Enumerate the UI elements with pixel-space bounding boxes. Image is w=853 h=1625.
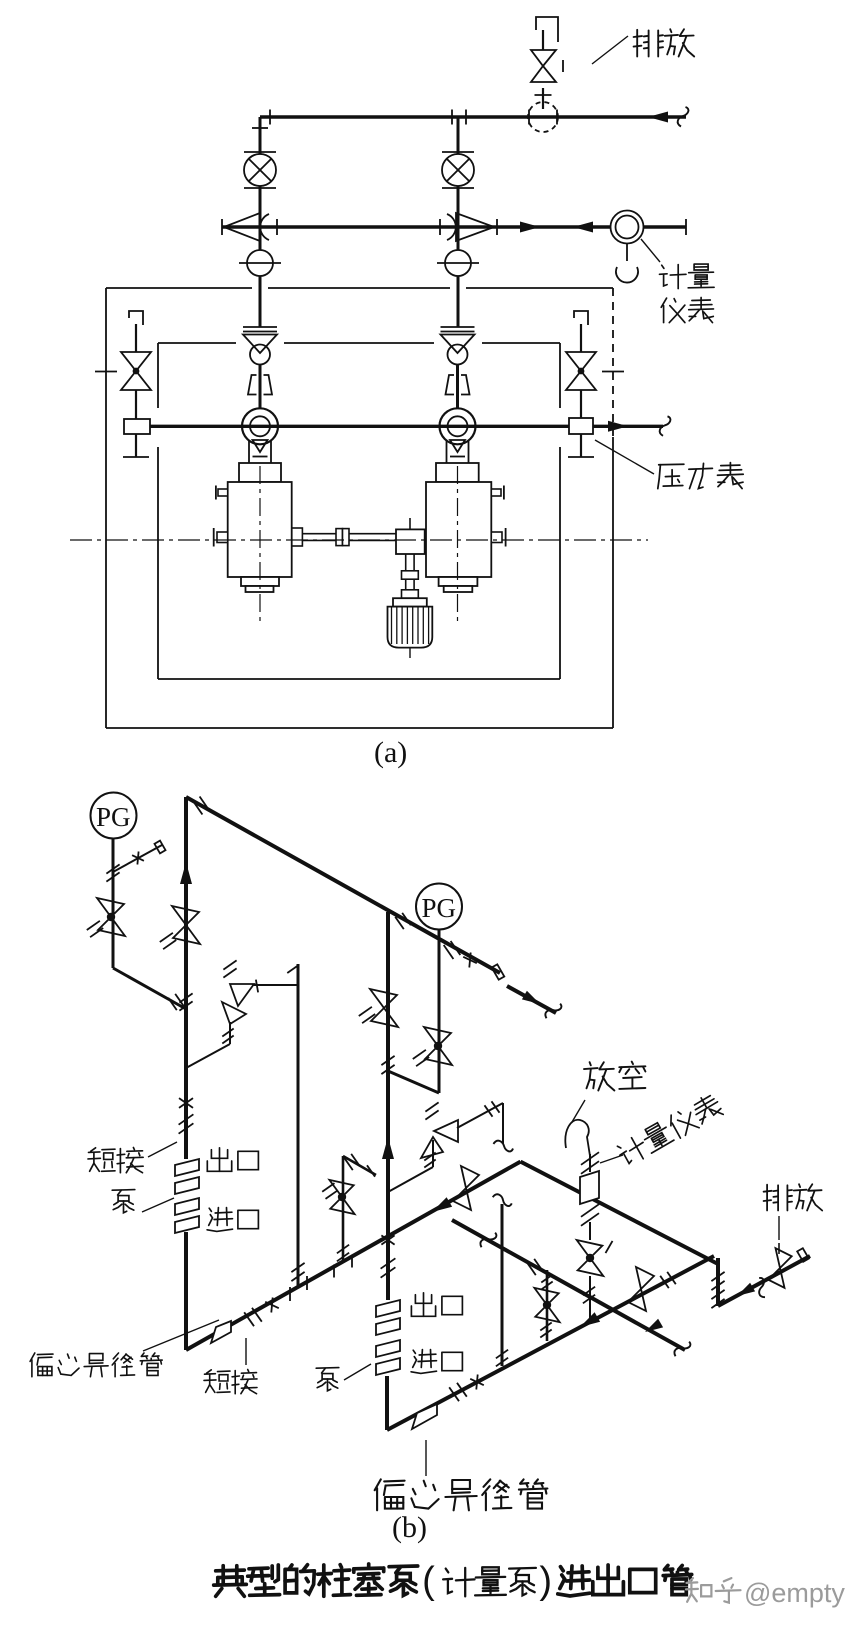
leader 泵 1	[142, 1198, 174, 1212]
valve on P2	[636, 1267, 654, 1289]
pipe break R right end	[673, 1338, 692, 1360]
flange pair valve2	[359, 1007, 372, 1016]
wire vent top	[542, 30, 544, 50]
wire riser 2 upper	[457, 117, 460, 154]
pump2 foot	[439, 577, 478, 586]
flange pair on R	[527, 1263, 536, 1275]
flange pair on drop	[711, 1272, 724, 1281]
SV1 triangle lower	[222, 1002, 246, 1024]
union circle on riser	[457, 227, 460, 250]
inline box right bypass (pressure gauge)	[569, 418, 593, 434]
vertical drive shaft	[405, 554, 407, 598]
wire riser2 to PG2 jog	[388, 1071, 439, 1093]
centerline pump1	[259, 466, 261, 626]
end tick H2 right	[685, 219, 687, 235]
flange pair on drop 2	[711, 1290, 724, 1299]
flange pair on riser1	[179, 993, 192, 1002]
SV1 triangle upper	[230, 984, 254, 1006]
flange pair PG2 valve	[413, 1050, 426, 1059]
leader line 压力表	[595, 440, 654, 474]
instrument body 计量仪表	[580, 1171, 599, 1204]
flange pair short joint P2	[449, 1387, 459, 1401]
motor M	[393, 598, 427, 606]
tick C3 top	[287, 965, 298, 973]
pipe break R left	[479, 1229, 498, 1251]
eccentric reducer pump1 suction	[211, 1321, 231, 1343]
tick on S-left at F1 junction 2	[351, 1255, 353, 1268]
label 偏心异径管 1	[30, 1353, 162, 1377]
vent blind end	[155, 841, 166, 854]
flexible joint brackets	[248, 375, 257, 395]
wire suction header S right branch	[521, 1162, 719, 1264]
wire PG1 stem	[112, 839, 115, 969]
wire R stub from F1 corner	[343, 1156, 376, 1175]
label 出口 2	[411, 1293, 462, 1317]
leader line 放空	[572, 1100, 585, 1122]
union X on S left	[265, 1302, 279, 1308]
leader line 排放	[592, 36, 628, 64]
svg-text:@empty: @empty	[744, 1578, 845, 1608]
eccentric reducer pump2 suction	[412, 1404, 437, 1429]
flange pair short joint S	[244, 1312, 254, 1326]
funnel triangle	[441, 335, 475, 354]
wire riser 1 upper	[259, 117, 262, 154]
svg-text:(: (	[422, 1560, 435, 1602]
flange pair below SV2	[424, 1153, 435, 1161]
flange pair short joint riser1	[179, 1114, 194, 1124]
valve on riser2	[370, 989, 397, 1008]
flange tick at cone apex	[496, 219, 498, 235]
wire continuation with break	[507, 986, 556, 1013]
valve vent (globe)	[531, 50, 556, 66]
flange pair above SV1	[223, 960, 236, 969]
wire SV1 inlet jog	[186, 1044, 230, 1068]
vent hook 放空	[565, 1120, 590, 1156]
inline box left bypass	[124, 419, 150, 434]
instrument PG1 circle	[91, 793, 137, 839]
flange pair on A at riser2	[395, 917, 404, 929]
coupling half B	[343, 529, 350, 546]
pipe break A continuation	[544, 1000, 563, 1022]
flow arrow left on H1	[648, 112, 668, 123]
centerline horizontal	[70, 539, 648, 541]
flow arrow up riser2	[382, 1137, 394, 1159]
pump1 left nipples	[218, 489, 228, 496]
flange pair C3 bottom	[291, 1263, 304, 1272]
flow arrow on R	[645, 1319, 663, 1332]
gearbox	[396, 529, 425, 554]
label 排放 (b)	[764, 1184, 823, 1210]
union X on P2	[470, 1379, 484, 1385]
wire drain line R	[452, 1220, 685, 1350]
circle below funnel	[448, 345, 468, 365]
coupling half A	[336, 529, 343, 546]
end tick right bypass	[568, 456, 594, 458]
flange pair above instrument	[581, 1152, 599, 1165]
flexible joint brackets	[446, 375, 455, 395]
leader 泵 2	[344, 1364, 371, 1380]
pump1 foot	[241, 577, 279, 586]
pump1 foot lower	[246, 586, 274, 592]
label 排放 (drain)	[634, 29, 695, 56]
vent branch on PG1 stem	[113, 845, 162, 872]
flange pair on R stub	[344, 1158, 353, 1170]
leader 偏心异径管 1	[143, 1320, 219, 1351]
pipe break drain	[752, 1277, 771, 1299]
tick SV1 outlet	[256, 980, 258, 993]
coupling v1	[402, 571, 419, 579]
leader 偏心异径管 2	[425, 1440, 427, 1476]
vent outlet hook	[536, 17, 558, 42]
stem tick instrument valve	[606, 1241, 613, 1253]
shaft flange at pump1	[292, 528, 303, 546]
closed vent valve X	[132, 855, 144, 861]
instrument PG2 circle	[416, 884, 462, 930]
leader 短接 2	[245, 1338, 247, 1365]
svg-text:(a): (a)	[374, 736, 407, 769]
end tick H2 left	[221, 219, 223, 235]
end tick R stub	[367, 1165, 375, 1176]
flange pair H1 at riser2	[451, 110, 453, 125]
leader line 计量仪表	[641, 239, 660, 262]
wire outlet header H1	[260, 115, 686, 118]
flange pair H1 at vent	[528, 110, 530, 125]
wire PG1 to riser1 iso jog	[113, 968, 186, 1009]
end tick left bypass	[123, 456, 149, 458]
flange pair instrument column lower	[583, 1287, 595, 1296]
valve plug riser 2	[442, 151, 474, 153]
arc right unit	[447, 214, 456, 240]
valve on riser1	[172, 906, 199, 925]
wire pump2 outlet riser	[386, 912, 390, 1232]
funnel hook right	[574, 311, 588, 325]
pump 2 body	[436, 463, 479, 482]
flange tick	[439, 219, 441, 235]
flow arrow right H2	[520, 222, 540, 233]
flange pair on A near corner	[193, 801, 203, 815]
svg-text:(b): (b)	[392, 1511, 427, 1544]
wire suction header H3	[150, 425, 663, 428]
flange pair valve1	[160, 933, 173, 942]
flow arrow up riser1	[180, 862, 192, 884]
valve on S left branch	[461, 1166, 479, 1188]
valve with dot on F1	[329, 1180, 353, 1197]
flange pair on A near end	[444, 945, 454, 959]
wire metering header H2	[222, 225, 686, 228]
flow arrow on P2	[580, 1312, 600, 1327]
flange pair below SV1	[222, 1029, 233, 1037]
boundary outer box	[106, 287, 252, 289]
pump2 outlet flanges	[376, 1300, 400, 1317]
flow arrow left H2	[573, 222, 593, 233]
wire main outlet header A	[186, 797, 500, 973]
centerline pump2	[457, 466, 459, 626]
flow arrow on continuation	[522, 991, 540, 1004]
label 压力表 (pressure gauge)	[658, 463, 743, 489]
flange pair short joint pump2	[381, 1258, 396, 1268]
pump1 inlet flanges	[175, 1198, 199, 1215]
reducer cone right	[456, 213, 494, 241]
circle below funnel	[250, 345, 270, 365]
title 典型的柱塞泵（计量泵)进出口管	[214, 1564, 418, 1596]
pump2 right nipples	[491, 489, 501, 496]
flange pair P2 near corner	[660, 1276, 669, 1288]
valve plug riser 1	[244, 151, 276, 153]
label 进口 2	[411, 1350, 462, 1374]
wire pump2 column	[386, 1232, 390, 1300]
dashed circle future connection	[528, 102, 558, 132]
label 仪表	[661, 298, 713, 323]
pump 1 body	[239, 463, 281, 482]
flange pair below instrument	[581, 1204, 599, 1217]
pump suction column	[243, 326, 277, 328]
flange pair on stem	[106, 864, 119, 873]
pipe break C6 top	[492, 1194, 512, 1206]
wire PG2 stem	[438, 930, 441, 1094]
leader 短接 1	[148, 1142, 177, 1157]
coupling v2	[402, 590, 419, 598]
wire pump1 column lower	[184, 1232, 188, 1350]
reducer cone left	[224, 213, 260, 241]
flange pair riser2	[381, 1056, 394, 1065]
union X pump2 column	[381, 1235, 394, 1244]
valve with dot on PG1 stem	[97, 898, 124, 917]
pump2 inlet flanges	[376, 1340, 400, 1357]
flow arrow drain	[737, 1283, 755, 1296]
wire suction header S left branch	[186, 1162, 521, 1350]
metering instrument column	[589, 1154, 591, 1172]
nozzle reducer	[248, 441, 250, 463]
flow arrow right H3	[608, 421, 628, 432]
flange tick H1	[269, 110, 271, 125]
label 泵 2	[316, 1368, 339, 1391]
wire drop C6	[501, 1204, 504, 1366]
wire SV2 discharge	[457, 1103, 503, 1128]
funnel triangle	[243, 335, 277, 354]
pipe break H3 right end	[660, 416, 671, 436]
flange pair SV2 discharge	[485, 1105, 493, 1116]
wire corner drop at S right end	[716, 1258, 720, 1306]
pump suction column	[441, 326, 475, 328]
pump nozzle double circle	[440, 408, 476, 444]
arc left unit	[260, 214, 269, 240]
pump1 outlet flanges	[175, 1159, 199, 1176]
SV2 triangle lower	[421, 1137, 443, 1158]
tick on S-left at C3 junction 2	[306, 1276, 308, 1290]
tick crossing box edge left	[95, 371, 117, 373]
label 进口 1	[207, 1208, 258, 1232]
wire SV2 inlet jog	[388, 1167, 433, 1192]
valve with dot instrument column	[577, 1240, 603, 1258]
instrument 计量仪表 double circle	[611, 211, 644, 244]
flange pair at jog end	[168, 998, 177, 1010]
flange pair above SV2	[425, 1102, 438, 1111]
flange pair PG1 valve	[87, 921, 100, 930]
wire vent riser	[542, 88, 544, 109]
label 泵 1	[112, 1190, 135, 1213]
flange pair C6 bottom	[496, 1350, 508, 1359]
leader line 排放(b)	[778, 1216, 780, 1240]
tick on S-left at C3 junction	[289, 1287, 291, 1301]
tick on S-left at F1 junction	[333, 1265, 335, 1278]
watermark 知乎 @empty	[686, 1578, 741, 1603]
wire pump2 suction header P2	[387, 1256, 714, 1430]
wire drain branch	[718, 1256, 810, 1306]
flange pair F1 valve	[322, 1183, 334, 1192]
drain blind end	[797, 1248, 809, 1262]
label 短接 1	[88, 1148, 143, 1173]
drain valve 排放	[776, 1248, 792, 1268]
pump2 foot lower	[444, 586, 473, 592]
pump nozzle double circle	[242, 408, 278, 444]
SV2 triangle right	[434, 1120, 458, 1142]
pipe break SV2 discharge end	[494, 1141, 514, 1152]
wire relief return column C3	[297, 964, 300, 1288]
open circle below instrument	[616, 267, 638, 283]
flange pair F1 bottom	[337, 1245, 349, 1254]
valve with dot on PG2 stem	[424, 1027, 451, 1046]
closed valve X on A end	[463, 957, 477, 963]
label 出口 1	[207, 1148, 258, 1172]
svg-text:PG: PG	[422, 893, 457, 923]
svg-text:): )	[539, 1560, 552, 1602]
label 计量	[660, 264, 715, 289]
label 短接 2	[204, 1370, 257, 1394]
blind flange end of A	[492, 964, 505, 979]
union circle on riser	[259, 227, 262, 250]
boundary inner box	[158, 342, 236, 344]
pipe break H1 right end	[678, 107, 689, 127]
leader line 计量仪表(b)	[600, 1155, 623, 1163]
union X riser1	[179, 1098, 193, 1108]
wire drop V7 from R to P2	[546, 1270, 549, 1341]
valve gate right bypass	[566, 352, 596, 371]
stem tick vent valve	[562, 60, 564, 72]
wire SV1 discharge	[252, 984, 298, 986]
tick crossing box edge right	[602, 371, 624, 373]
valve with dot on V7	[534, 1288, 558, 1305]
funnel hook left	[129, 311, 143, 325]
nozzle reducer	[446, 441, 448, 463]
label 偏心异径管 2	[375, 1479, 548, 1510]
label 放空	[584, 1062, 645, 1091]
svg-text:PG: PG	[96, 802, 131, 832]
wire drain column F1	[342, 1156, 345, 1262]
wire pump1 outlet riser C1	[184, 797, 188, 1159]
flange tick	[276, 219, 278, 235]
valve gate left bypass	[121, 352, 151, 371]
flange tick vent	[535, 94, 552, 96]
flange tick riser1 below corner	[252, 127, 268, 129]
flow arrow on S left	[432, 1197, 452, 1212]
label 计量仪表 (b) rotated	[615, 1092, 725, 1168]
